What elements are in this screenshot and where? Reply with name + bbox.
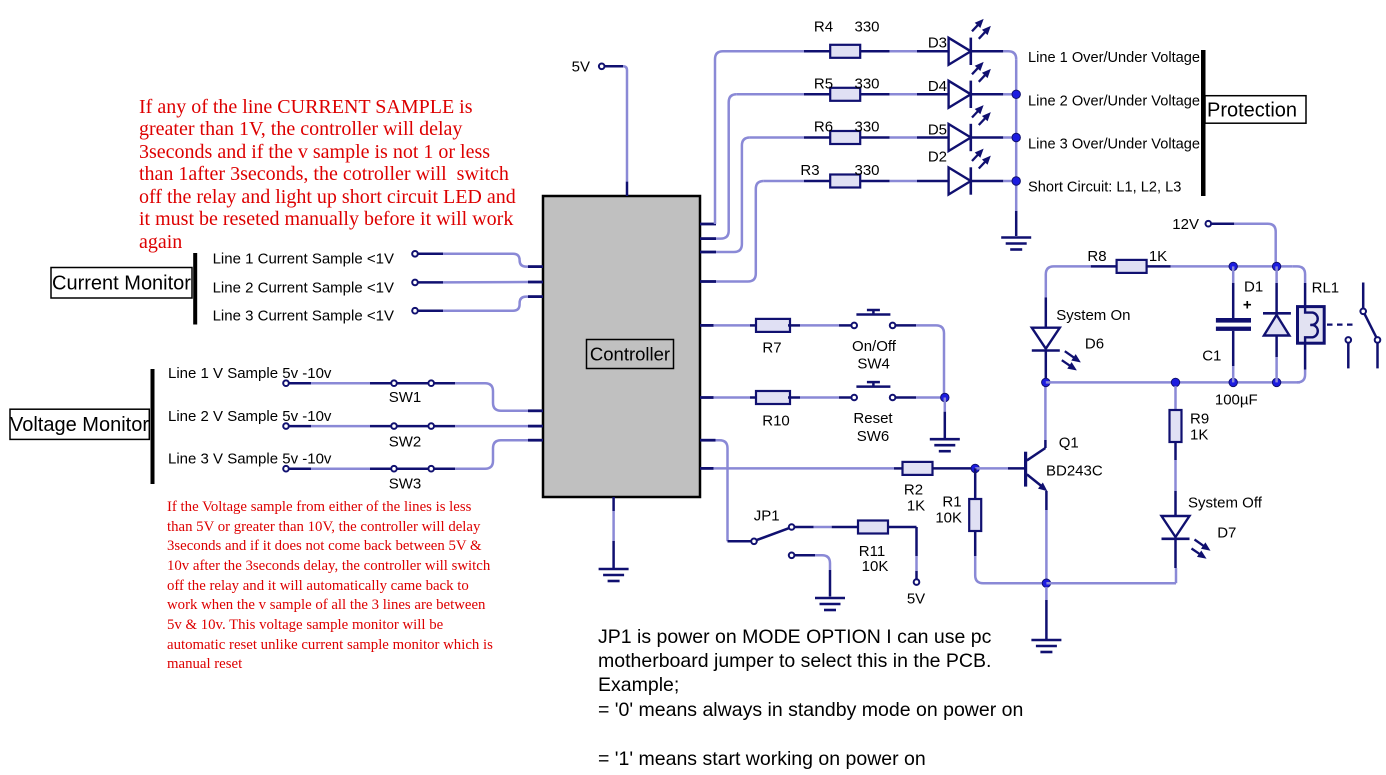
svg-text:5V: 5V <box>907 591 925 608</box>
svg-text:Line 3 Current Sample <1V: Line 3 Current Sample <1V <box>213 307 394 324</box>
svg-text:On/Off: On/Off <box>852 338 897 355</box>
svg-text:Line 3 Over/Under Voltage: Line 3 Over/Under Voltage <box>1028 137 1200 153</box>
svg-text:Line 2 Over/Under Voltage: Line 2 Over/Under Voltage <box>1028 93 1200 109</box>
svg-text:Line 2 Current Sample <1V: Line 2 Current Sample <1V <box>213 279 394 296</box>
svg-text:Line 2 V Sample 5v -10v: Line 2 V Sample 5v -10v <box>168 408 332 425</box>
svg-text:Reset: Reset <box>853 410 893 427</box>
svg-text:1K: 1K <box>907 497 925 514</box>
svg-text:12V: 12V <box>1172 216 1199 233</box>
svg-text:JP1: JP1 <box>754 508 780 525</box>
svg-text:R3: R3 <box>800 162 819 179</box>
svg-text:D4: D4 <box>928 78 947 95</box>
svg-text:Line 1 V Sample 5v -10v: Line 1 V Sample 5v -10v <box>168 365 332 382</box>
svg-text:330: 330 <box>854 75 879 92</box>
svg-text:Voltage Monitor: Voltage Monitor <box>10 414 149 436</box>
svg-text:SW6: SW6 <box>857 428 890 445</box>
svg-text:R2: R2 <box>904 481 923 498</box>
svg-text:5V: 5V <box>572 59 590 76</box>
svg-text:Protection: Protection <box>1207 100 1297 122</box>
svg-text:R1: R1 <box>942 493 961 510</box>
svg-text:Controller: Controller <box>590 343 670 364</box>
svg-text:SW3: SW3 <box>389 476 422 493</box>
svg-text:Current Monitor: Current Monitor <box>52 273 191 295</box>
svg-text:RL1: RL1 <box>1312 280 1340 297</box>
svg-text:D1: D1 <box>1244 278 1263 295</box>
svg-text:Q1: Q1 <box>1059 434 1079 451</box>
svg-text:+: + <box>1243 296 1252 313</box>
svg-text:D3: D3 <box>928 34 947 51</box>
svg-text:D7: D7 <box>1217 524 1236 541</box>
svg-text:Short Circuit: L1, L2, L3: Short Circuit: L1, L2, L3 <box>1028 179 1181 195</box>
svg-text:D6: D6 <box>1085 335 1104 352</box>
svg-text:System On: System On <box>1056 307 1130 324</box>
svg-text:Line 1 Over/Under Voltage: Line 1 Over/Under Voltage <box>1028 50 1200 66</box>
svg-text:C1: C1 <box>1202 348 1221 365</box>
svg-text:10K: 10K <box>935 509 962 526</box>
svg-text:D2: D2 <box>928 148 947 165</box>
svg-text:R6: R6 <box>814 118 833 135</box>
svg-text:BD243C: BD243C <box>1046 462 1103 479</box>
svg-text:SW1: SW1 <box>389 389 422 406</box>
svg-text:330: 330 <box>854 162 879 179</box>
svg-text:System Off: System Off <box>1188 495 1263 512</box>
svg-text:R9: R9 <box>1190 410 1209 427</box>
svg-text:R7: R7 <box>762 339 781 356</box>
svg-text:1K: 1K <box>1149 248 1167 265</box>
svg-text:D5: D5 <box>928 121 947 138</box>
svg-text:10K: 10K <box>862 558 889 575</box>
svg-text:330: 330 <box>854 18 879 35</box>
svg-text:100µF: 100µF <box>1215 391 1258 408</box>
svg-text:R5: R5 <box>814 75 833 92</box>
svg-text:R4: R4 <box>814 18 833 35</box>
svg-text:SW2: SW2 <box>389 433 422 450</box>
svg-text:R10: R10 <box>762 412 790 429</box>
svg-text:1K: 1K <box>1190 426 1208 443</box>
svg-text:330: 330 <box>854 118 879 135</box>
svg-text:Line 3 V Sample 5v -10v: Line 3 V Sample 5v -10v <box>168 451 332 468</box>
svg-text:R8: R8 <box>1087 248 1106 265</box>
svg-text:SW4: SW4 <box>857 355 890 372</box>
